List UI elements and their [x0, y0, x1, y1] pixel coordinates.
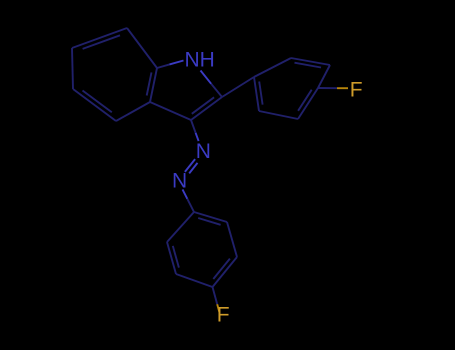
benzene ring of indole [72, 28, 157, 121]
svg-text:F: F [350, 78, 363, 101]
F label right [350, 78, 363, 101]
NH label [185, 48, 215, 71]
4-fluorophenyl ring (bottom) [167, 212, 237, 287]
svg-text:N: N [172, 169, 187, 192]
bond N-phenyl bottom [183, 189, 195, 212]
N label azo upper [196, 140, 211, 163]
svg-text:NH: NH [185, 48, 215, 71]
bond C2=C3 double [191, 97, 222, 120]
bond C3-C3a [150, 102, 191, 120]
N label azo lower [172, 169, 187, 192]
bond C7a-N1 [157, 61, 184, 69]
bond N1-C2 [201, 71, 223, 98]
svg-text:N: N [196, 140, 211, 163]
bond C-F bottom [213, 287, 220, 312]
bond C3-N azo [191, 120, 199, 141]
N=N double bond [185, 159, 198, 173]
bond C-F right [318, 87, 348, 89]
bond C2-phenyl [222, 77, 254, 97]
F label bottom [217, 303, 230, 326]
svg-text:F: F [217, 303, 230, 326]
4-fluorophenyl ring (right) [254, 58, 330, 119]
